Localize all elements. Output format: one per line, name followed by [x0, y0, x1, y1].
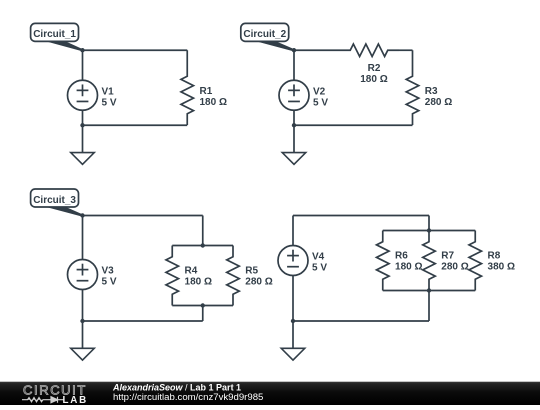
V3 value label: [102, 266, 117, 288]
ground: [281, 321, 305, 360]
svg-text:R8: R8: [488, 251, 501, 262]
wire parallel bottom bar: [172, 305, 233, 307]
wire down to parallel block: [428, 216, 430, 231]
R3 value label: [425, 86, 452, 108]
resistor R2: [339, 44, 399, 57]
node label Circuit_3: [31, 189, 83, 216]
wire V3 top lead: [82, 216, 84, 260]
R7 value label: [441, 251, 468, 273]
node top-left Circuit_2: [292, 48, 296, 52]
svg-text:AlexandriaSeow / Lab 1 Part 1: AlexandriaSeow / Lab 1 Part 1: [112, 383, 241, 393]
svg-text:180 Ω: 180 Ω: [185, 277, 212, 288]
ground: [71, 125, 95, 164]
node parallel bottom Circuit_4: [427, 288, 431, 292]
Circuit_4: top wire: [293, 215, 429, 217]
wire parallel top bar: [383, 230, 476, 232]
svg-text:V4: V4: [312, 252, 325, 263]
svg-text:180 Ω: 180 Ω: [395, 262, 422, 273]
node bottom-left Circuit_3: [80, 319, 84, 323]
V4 value label: [312, 252, 327, 274]
V2 value label: [313, 86, 328, 108]
svg-text:280 Ω: 280 Ω: [425, 97, 452, 108]
node top-left Circuit_1: [80, 48, 84, 52]
wire parallel bottom bar: [383, 290, 476, 292]
wire V4 bottom lead: [292, 276, 294, 322]
ground: [71, 321, 95, 360]
resistor R8: [469, 231, 482, 291]
voltage source V1: [68, 80, 98, 110]
svg-text:R1: R1: [200, 86, 213, 97]
Circuit_3: bottom wire: [83, 320, 203, 322]
wire V1 top lead: [82, 50, 84, 80]
svg-text:R3: R3: [425, 86, 438, 97]
node label Circuit_1: [31, 23, 83, 50]
node bottom-left Circuit_4: [291, 319, 295, 323]
wire R1 top lead: [186, 50, 188, 65]
svg-text:280 Ω: 280 Ω: [245, 277, 272, 288]
Circuit_1: bottom wire: [83, 124, 188, 126]
node bottom-left Circuit_2: [292, 123, 296, 127]
wire V2 bottom lead: [293, 110, 295, 125]
svg-text:5 V: 5 V: [312, 263, 327, 274]
R2 value label: [360, 63, 387, 85]
R4 value label: [185, 266, 212, 288]
resistor R3: [406, 65, 419, 125]
node parallel bottom Circuit_3: [201, 303, 205, 307]
Circuit_2: top wire right segment: [399, 49, 413, 51]
svg-text:R6: R6: [395, 251, 408, 262]
svg-text:380 Ω: 380 Ω: [488, 262, 515, 273]
svg-text:V1: V1: [102, 86, 115, 97]
svg-text:R5: R5: [245, 266, 258, 277]
node label Circuit_2: [241, 23, 294, 50]
svg-text:LAB: LAB: [63, 395, 89, 405]
wire V1 bottom lead: [82, 110, 84, 125]
node parallel top Circuit_4: [427, 228, 431, 232]
Circuit_2: top wire left segment: [294, 49, 339, 51]
resistor R1: [181, 65, 194, 125]
voltage source V4: [278, 246, 308, 276]
wire V2 top lead: [293, 50, 295, 80]
svg-text:Circuit_1: Circuit_1: [33, 29, 76, 40]
svg-text:280 Ω: 280 Ω: [441, 262, 468, 273]
wire parallel top bar: [172, 245, 233, 247]
Circuit_2: bottom wire: [294, 124, 413, 126]
R6 value label: [395, 251, 422, 273]
R8 value label: [488, 251, 515, 273]
svg-text:R7: R7: [441, 251, 454, 262]
wire R3 top lead: [412, 50, 414, 65]
wire down from parallel block: [202, 306, 204, 322]
resistor R5: [227, 246, 240, 306]
svg-text:180 Ω: 180 Ω: [360, 74, 387, 85]
R5 value label: [245, 266, 272, 288]
node top-left Circuit_3: [80, 213, 84, 217]
R1 value label: [200, 86, 227, 108]
Circuit_4: bottom wire: [293, 320, 429, 322]
wire V3 bottom lead: [82, 290, 84, 322]
wire V4 top lead: [292, 216, 294, 246]
svg-text:http://circuitlab.com/cnz7vk9d: http://circuitlab.com/cnz7vk9d9r985: [113, 392, 263, 403]
svg-text:5 V: 5 V: [102, 277, 117, 288]
Circuit_3: top wire: [83, 215, 203, 217]
svg-text:5 V: 5 V: [102, 97, 117, 108]
resistor R4: [166, 246, 179, 306]
svg-text:5 V: 5 V: [313, 97, 328, 108]
svg-text:V3: V3: [102, 266, 115, 277]
voltage source V2: [279, 80, 309, 110]
wire down to parallel block: [202, 216, 204, 246]
svg-text:180 Ω: 180 Ω: [200, 97, 227, 108]
Circuit_1: top wire: [83, 49, 188, 51]
svg-text:V2: V2: [313, 86, 326, 97]
voltage source V3: [68, 260, 98, 290]
svg-text:R2: R2: [368, 63, 381, 74]
svg-text:Circuit_2: Circuit_2: [243, 29, 286, 40]
V1 value label: [102, 86, 117, 108]
ground: [282, 125, 306, 164]
node bottom-left Circuit_1: [80, 123, 84, 127]
svg-text:R4: R4: [185, 266, 198, 277]
wire down from parallel block: [428, 291, 430, 322]
resistor R6: [377, 231, 390, 291]
svg-text:Circuit_3: Circuit_3: [33, 195, 76, 206]
resistor R7: [423, 231, 436, 291]
CircuitLab logo schematic squiggle (resistor + diode): [22, 397, 64, 403]
node parallel top Circuit_3: [201, 243, 205, 247]
